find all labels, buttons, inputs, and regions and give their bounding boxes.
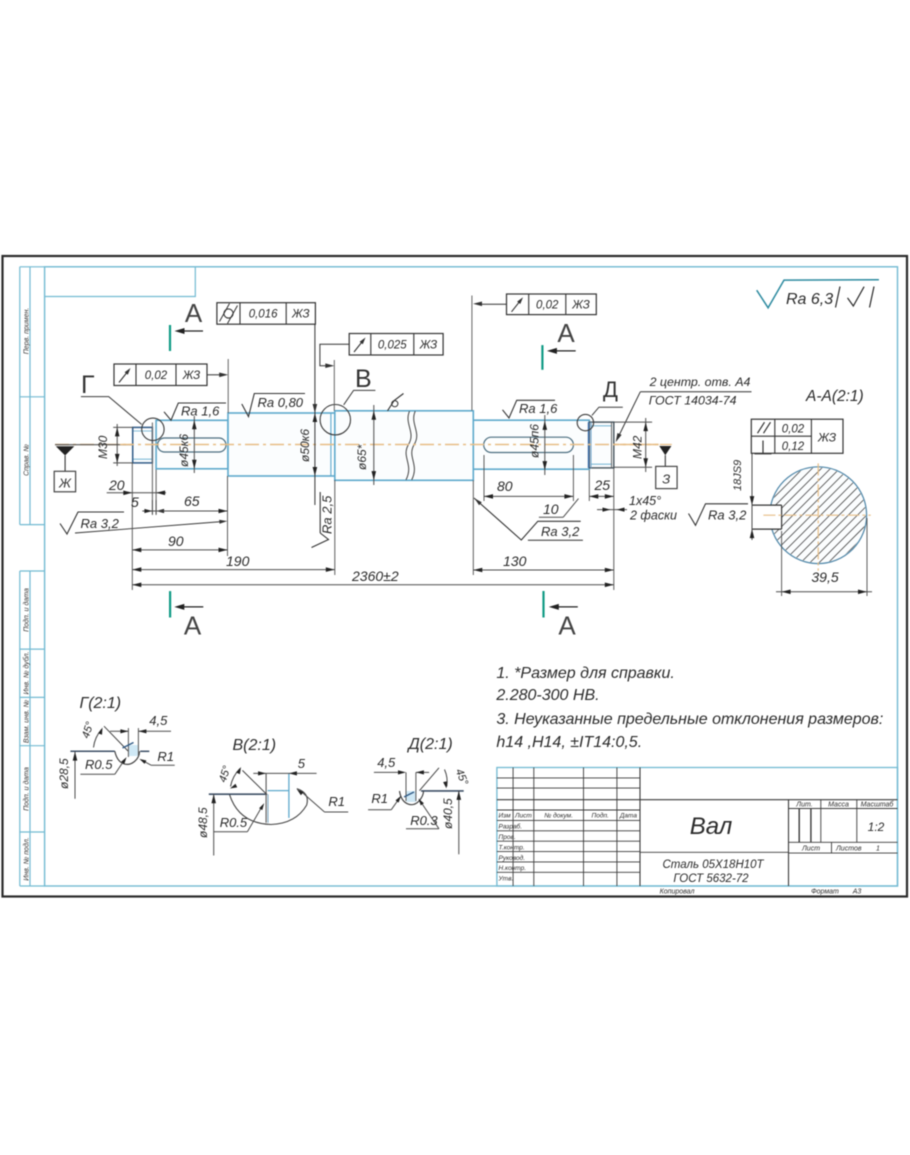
section cut mark A bottom-right xyxy=(542,591,544,618)
svg-text:Листов: Листов xyxy=(835,846,862,853)
svg-text:Ж: Ж xyxy=(58,476,72,491)
svg-text:Сталь 05Х18Н10Т: Сталь 05Х18Н10Т xyxy=(662,859,764,871)
svg-text:Справ. №: Справ. № xyxy=(23,444,30,476)
detail Д R1 xyxy=(368,809,391,811)
svg-text:А: А xyxy=(557,318,575,348)
roughness Ra 1,6 (right ø45n6) xyxy=(503,400,556,418)
svg-text:Масштаб: Масштаб xyxy=(861,801,895,809)
svg-text:ø28,5: ø28,5 xyxy=(57,758,71,789)
title block grid xyxy=(497,777,640,779)
detail Г R1 xyxy=(151,764,175,766)
dimension ø65* xyxy=(373,405,375,485)
chamfer line at shaft right end xyxy=(611,422,613,468)
dimension 90 xyxy=(132,549,227,551)
extension line for 0,025 arrow xyxy=(333,360,335,411)
svg-text:80: 80 xyxy=(497,478,513,494)
svg-text:90: 90 xyxy=(168,533,184,549)
shaft centerline (axis) xyxy=(55,444,659,446)
svg-text:4,5: 4,5 xyxy=(149,713,168,728)
dimension ø45к6 xyxy=(193,416,195,473)
svg-text:0,02: 0,02 xyxy=(145,370,168,382)
svg-text:А3: А3 xyxy=(852,889,862,896)
shaft section ø65 (with break) xyxy=(335,411,474,481)
svg-text:ЖЗ: ЖЗ xyxy=(419,339,437,351)
svg-text:1: 1 xyxy=(876,846,880,853)
A-A centerlines xyxy=(763,514,870,516)
svg-text:Подп. и дата: Подп. и дата xyxy=(22,767,30,811)
svg-text:А: А xyxy=(184,611,202,641)
datum symbol З xyxy=(659,446,671,455)
svg-text:Г: Г xyxy=(81,371,95,399)
shaft section ø45n6 (right, with keyway) xyxy=(473,420,589,469)
centerline extension left (datum Ж attach) xyxy=(55,444,132,446)
svg-text:Формат: Формат xyxy=(811,889,839,896)
svg-text:ГОСТ 14034-74: ГОСТ 14034-74 xyxy=(649,394,737,408)
svg-text:5: 5 xyxy=(298,756,306,771)
svg-text:Ra 1,6: Ra 1,6 xyxy=(181,404,220,419)
svg-text:М42: М42 xyxy=(631,435,645,459)
svg-text:Ra 3,2: Ra 3,2 xyxy=(541,524,580,539)
detail Г dim ø28,5 xyxy=(74,752,76,799)
svg-text:h14 ,Н14, ±IT14:0,5.: h14 ,Н14, ±IT14:0,5. xyxy=(496,734,642,751)
detail circle Д xyxy=(577,414,593,430)
svg-text:Подп. и дата: Подп. и дата xyxy=(22,588,30,632)
detail В 45° chamfer xyxy=(242,770,267,794)
svg-text:ГОСТ 5632-72: ГОСТ 5632-72 xyxy=(673,873,749,885)
svg-text:Подп.: Подп. xyxy=(592,812,609,820)
left margin column (GOST graphs) xyxy=(19,267,21,525)
tolerance frame radial runout 0,025 ЖЗ xyxy=(349,334,443,356)
svg-text:ЖЗ: ЖЗ xyxy=(291,309,309,321)
svg-text:1:2: 1:2 xyxy=(868,820,885,834)
keyway slot left xyxy=(158,438,227,452)
svg-text:R0.5: R0.5 xyxy=(85,757,113,772)
detail Г 45° angle arc xyxy=(94,730,102,748)
svg-text:Утв.: Утв. xyxy=(498,876,514,883)
svg-text:3. Неуказанные предельные откл: 3. Неуказанные предельные отклонения раз… xyxy=(496,711,883,728)
svg-text:№ докум.: № докум. xyxy=(544,812,573,820)
perpendicularity symbol xyxy=(762,441,764,454)
tolerance frame radial runout 0,02 ЖЗ (left) xyxy=(114,364,207,386)
parallelism symbol xyxy=(758,422,765,433)
svg-text:Ra 6,3: Ra 6,3 xyxy=(786,291,833,308)
shaft section M30 threaded stub xyxy=(133,427,153,463)
svg-text:1. *Размер для справки.: 1. *Размер для справки. xyxy=(496,665,674,682)
roughness mark with circle on ø65 xyxy=(388,394,404,411)
roughness Ra 2,5 (rotated, at ø65 step) xyxy=(319,492,321,533)
svg-text:В(2:1): В(2:1) xyxy=(233,737,277,754)
svg-text:25: 25 xyxy=(594,477,611,493)
svg-text:Н.контр.: Н.контр. xyxy=(499,865,527,872)
svg-text:18JS9: 18JS9 xyxy=(732,460,744,491)
section cut mark A top-left xyxy=(169,325,171,351)
dimension М42 xyxy=(614,421,652,423)
svg-text:R1: R1 xyxy=(328,794,345,809)
thread relief groove at M30 xyxy=(151,423,153,515)
svg-text:Пров.: Пров. xyxy=(499,834,516,841)
dimension ø45п6 xyxy=(544,415,546,475)
groove lines at ø50/ø65 step xyxy=(330,413,332,476)
dimension 5 xyxy=(142,510,172,512)
dimension M30 xyxy=(113,426,133,428)
section cut mark A bottom-left xyxy=(169,591,171,617)
cylindricity symbol xyxy=(224,309,233,318)
shaft break (wavy) xyxy=(406,411,411,480)
dimension 20 xyxy=(107,492,166,494)
detail В R1 xyxy=(325,811,349,813)
svg-text:20: 20 xyxy=(108,477,125,493)
svg-text:Ra 2,5: Ra 2,5 xyxy=(320,495,335,534)
svg-text:39,5: 39,5 xyxy=(811,569,838,585)
dimension 130 xyxy=(473,569,614,571)
svg-text:1х45°: 1х45° xyxy=(629,494,661,508)
roughness Ra 3,2 (left bottom) with leader xyxy=(60,512,124,534)
svg-text:R0.3: R0.3 xyxy=(410,813,438,828)
svg-text:R1: R1 xyxy=(157,749,174,764)
svg-text:Лист: Лист xyxy=(801,846,820,853)
svg-text:ЖЗ: ЖЗ xyxy=(571,300,589,312)
svg-text:М30: М30 xyxy=(96,435,110,459)
svg-text:Ra 0,80: Ra 0,80 xyxy=(258,395,304,410)
svg-text:Взам. инв. №: Взам. инв. № xyxy=(23,699,30,743)
svg-text:0,016: 0,016 xyxy=(249,309,278,321)
extension lines for horizontal dims xyxy=(131,463,133,590)
svg-text:Лист: Лист xyxy=(514,813,532,820)
svg-text:Ra 3,2: Ra 3,2 xyxy=(708,508,747,523)
svg-text:Лит.: Лит. xyxy=(795,802,812,809)
svg-text:А: А xyxy=(558,611,576,641)
detail Г geometry xyxy=(70,750,114,752)
extension line above ø65 right step xyxy=(471,296,473,411)
svg-text:Т.контр.: Т.контр. xyxy=(499,844,525,851)
svg-text:0,12: 0,12 xyxy=(782,441,805,453)
svg-text:Копировал: Копировал xyxy=(660,889,695,896)
detail Д dim ø40,5 xyxy=(458,791,460,854)
shaft centerline overlay xyxy=(120,444,659,446)
svg-text:130: 130 xyxy=(503,553,527,569)
leader from 0,016 frame down to ø50 dim line xyxy=(314,324,316,505)
svg-text:5: 5 xyxy=(131,494,139,510)
dimension 25 xyxy=(589,495,614,497)
dimension ø50к6 xyxy=(313,413,318,422)
leader from left 0,02 frame xyxy=(207,374,222,376)
svg-text:ЖЗ: ЖЗ xyxy=(182,370,200,382)
svg-text:ЖЗ: ЖЗ xyxy=(817,431,837,445)
roughness Ra 0,80 (ø50k6) xyxy=(242,394,305,417)
svg-text:0,025: 0,025 xyxy=(378,339,407,351)
datum symbol Ж xyxy=(56,446,75,455)
svg-text:2.280-300 НВ.: 2.280-300 НВ. xyxy=(495,687,599,704)
shaft section ø45k6 (left, with keyway) xyxy=(156,420,228,469)
svg-text:ø45п6: ø45п6 xyxy=(528,424,542,458)
svg-text:ø65*: ø65* xyxy=(355,444,369,470)
svg-text:Вал: Вал xyxy=(690,813,733,840)
svg-text:4,5: 4,5 xyxy=(377,755,396,770)
svg-text:Изм: Изм xyxy=(498,813,511,820)
svg-text:А-А(2:1): А-А(2:1) xyxy=(805,388,864,405)
detail В dim 5 xyxy=(253,772,316,774)
svg-text:2 центр. отв. А4: 2 центр. отв. А4 xyxy=(649,375,751,389)
svg-text:Перв. примен.: Перв. примен. xyxy=(23,308,30,355)
svg-text:Дата: Дата xyxy=(619,813,638,820)
svg-text:В: В xyxy=(355,365,372,393)
detail circle В xyxy=(320,405,350,435)
svg-text:Руковод.: Руковод. xyxy=(499,854,526,862)
svg-text:Г(2:1): Г(2:1) xyxy=(80,695,122,712)
roughness Ra 3,2 (A-A keyway) xyxy=(689,504,749,526)
dimension 80 xyxy=(484,495,573,497)
svg-text:2360±2: 2360±2 xyxy=(351,568,399,584)
svg-text:Инв. № подл.: Инв. № подл. xyxy=(22,837,30,880)
shaft section ø50k6 xyxy=(228,413,335,476)
svg-text:ø40,5: ø40,5 xyxy=(441,798,455,829)
shaft section M42 threaded end xyxy=(589,422,614,468)
thread relief groove at M42 xyxy=(588,422,590,468)
tolerance frame radial runout 0,02 ЖЗ (right) xyxy=(507,294,597,315)
svg-text:R1: R1 xyxy=(371,791,388,806)
outer black border xyxy=(3,256,908,897)
detail Д geometry xyxy=(421,790,464,792)
leader to center hole xyxy=(619,392,641,437)
detail Д 45° angle arc xyxy=(445,770,448,787)
dimension 1х45° 2 фаски xyxy=(597,509,627,511)
svg-text:Масса: Масса xyxy=(828,802,849,809)
svg-text:0,02: 0,02 xyxy=(536,300,559,312)
dimension 65 xyxy=(156,510,227,512)
svg-text:Ra 1,6: Ra 1,6 xyxy=(519,401,558,416)
centerline extension right (datum З attach) xyxy=(614,444,672,446)
svg-text:З: З xyxy=(662,472,670,487)
roughness Ra 3,2 (right bottom) with big V leader xyxy=(474,498,581,540)
inner cyan frame xyxy=(45,267,898,886)
dimension 10 (leader) xyxy=(539,516,563,518)
svg-text:Инв. № дубл.: Инв. № дубл. xyxy=(22,651,30,694)
detail Д dim 4,5 xyxy=(374,771,400,773)
svg-text:ø48,5: ø48,5 xyxy=(196,807,210,838)
section cut mark A top-right xyxy=(541,345,543,370)
detail В dim ø48,5 xyxy=(213,794,215,855)
keyway notch in A-A xyxy=(768,506,781,529)
detail Г R0.5 xyxy=(80,773,114,775)
detail В geometry xyxy=(209,793,267,795)
svg-text:Разраб.: Разраб. xyxy=(499,823,523,831)
detail Д R0.3 xyxy=(406,828,439,830)
keyway slot right xyxy=(484,437,574,452)
leader from 0,025 frame xyxy=(320,344,349,366)
svg-text:2 фаски: 2 фаски xyxy=(629,509,677,523)
svg-text:R0.5: R0.5 xyxy=(220,815,248,830)
tolerance frame cylindricity 0,016 ЖЗ xyxy=(217,303,316,325)
M42 thread minor lines xyxy=(592,425,612,427)
dimension 39,5 xyxy=(781,531,783,596)
svg-text:190: 190 xyxy=(226,553,250,569)
svg-text:А: А xyxy=(185,298,203,328)
svg-text:Ra 3,2: Ra 3,2 xyxy=(81,516,120,531)
dimension 2360±2 xyxy=(132,584,614,586)
roughness Ra 1,6 (left ø45k6) xyxy=(164,403,226,420)
svg-text:10: 10 xyxy=(543,501,559,517)
general roughness Ra 6,3 xyxy=(757,280,879,308)
dimension 190 xyxy=(132,569,334,571)
svg-text:0,02: 0,02 xyxy=(782,423,805,435)
dimension 18JS9 xyxy=(751,453,753,540)
svg-text:ø50к6: ø50к6 xyxy=(298,429,312,462)
svg-text:65: 65 xyxy=(184,493,200,509)
tolerance frame parallelism/perpendicularity xyxy=(751,419,843,453)
extension line above ø45/ø50 step xyxy=(227,359,229,413)
svg-text:Д(2:1): Д(2:1) xyxy=(407,736,453,753)
detail Г dim 4,5 xyxy=(110,730,128,732)
svg-text:ø45к6: ø45к6 xyxy=(177,434,191,467)
M30 thread minor lines xyxy=(134,430,152,432)
top-left reference box xyxy=(45,267,196,297)
detail circle Г xyxy=(142,418,164,440)
title block outer xyxy=(497,768,898,887)
detail В R0.5 xyxy=(214,831,248,833)
svg-text:Д: Д xyxy=(603,377,618,402)
leader from right 0,02 frame xyxy=(478,303,507,305)
